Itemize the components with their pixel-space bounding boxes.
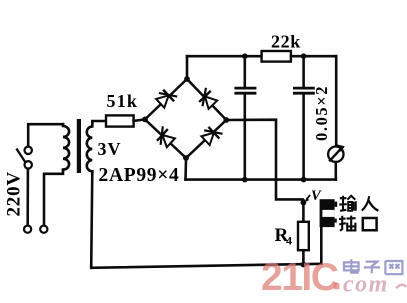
- svg-text:V: V: [311, 188, 322, 204]
- diode D4 bottom-right arm: [200, 124, 222, 146]
- switch S1 terminal circles: [25, 147, 32, 154]
- wire: top rail right corner down to meter: [335, 56, 338, 146]
- wire: primary bottom to right plug pin: [44, 170, 63, 225]
- resistor R4 box: [298, 222, 309, 250]
- wire: socket lead down to bottom bus: [320, 227, 323, 264]
- bridge arm: left node to top node: [145, 79, 187, 119]
- plug pin terminal circles: [24, 226, 31, 233]
- node: top rail C1 tap: [242, 53, 248, 59]
- char zi: [364, 262, 380, 274]
- resistor 22k box: [262, 51, 291, 62]
- wire: R4 top lead: [302, 200, 305, 222]
- label shu-ru (input) hanzi: [339, 196, 378, 231]
- wire: bridge top node riser: [186, 56, 189, 76]
- char ru: [362, 196, 379, 211]
- svg-text:4: 4: [286, 234, 292, 248]
- meter M1: [328, 144, 345, 162]
- svg-text:21IC: 21IC: [261, 256, 339, 299]
- node: bridge top: [184, 76, 190, 82]
- node: bridge right: [223, 117, 229, 123]
- bridge arm: top node to right node: [187, 79, 226, 120]
- svg-text:3V: 3V: [98, 139, 122, 159]
- wire: secondary bottom down to bottom bus: [91, 171, 92, 267]
- wire: plug left pin to switch: [26, 169, 29, 226]
- wire: switch top circle up to primary top wire: [28, 124, 63, 146]
- node: bridge bottom: [183, 155, 189, 161]
- char wang: [385, 261, 402, 274]
- node: R4 top junction: [301, 200, 307, 206]
- bridge arm: left node to bottom node: [145, 119, 186, 158]
- wire: bridge bottom node down to negative bus: [184, 161, 187, 180]
- node: bus C1 tap: [242, 177, 248, 183]
- wire: top rail left of 22k: [187, 55, 262, 58]
- transformer primary coil: [63, 124, 69, 170]
- node: top rail C2 tap: [301, 53, 307, 59]
- wire: capacitor C1 top lead: [244, 56, 247, 86]
- capacitor C2 plates: [294, 87, 313, 90]
- char dian: [344, 259, 359, 272]
- wire: capacitor C2 bottom lead to bus: [302, 95, 305, 180]
- watermark dian-zi-wang hanzi: [344, 259, 402, 274]
- resistor 51k box: [106, 115, 134, 126]
- wire: capacitor C2 top lead: [302, 56, 305, 86]
- transformer secondary coil: [87, 123, 93, 172]
- svg-text:22k: 22k: [271, 32, 301, 52]
- bridge arm: bottom node to right node: [186, 120, 226, 158]
- node: R4 bottom junction: [301, 262, 307, 268]
- diode D1 top-left arm: [155, 87, 177, 109]
- capacitor C1 plates: [236, 87, 255, 90]
- char shu: [339, 196, 356, 211]
- input socket symbol: [320, 199, 338, 227]
- wire: bridge right node feed to R4: [226, 120, 302, 200]
- svg-text:220V: 220V: [4, 171, 25, 216]
- svg-text:com: com: [343, 272, 389, 298]
- watermark period: [334, 283, 340, 289]
- wire: R4 bottom lead: [302, 250, 305, 264]
- transformer core: [77, 119, 81, 173]
- svg-text:2AP99×4: 2AP99×4: [99, 165, 180, 186]
- svg-text:0.05×2: 0.05×2: [312, 85, 331, 141]
- wire: 51k to bridge left node: [134, 119, 145, 121]
- diode D2 top-right arm: [196, 88, 218, 110]
- switch blade: [17, 150, 25, 163]
- wire: top rail right of 22k: [291, 55, 336, 58]
- diode D3 bottom-left arm: [154, 127, 176, 149]
- wire: negative bus: [186, 178, 336, 181]
- wire: capacitor C1 bottom lead to bus: [244, 95, 247, 180]
- char kou: [363, 218, 377, 230]
- V arrow pointer: [307, 196, 309, 199]
- wire: bottom return bus: [91, 264, 321, 268]
- wire: secondary top to 51k resistor: [92, 121, 106, 124]
- node: bus C2 tap: [301, 177, 307, 183]
- wire: meter bottom to bus: [334, 163, 337, 180]
- node: bridge left: [142, 117, 148, 123]
- svg-text:51k: 51k: [107, 91, 139, 111]
- char cha: [339, 216, 356, 231]
